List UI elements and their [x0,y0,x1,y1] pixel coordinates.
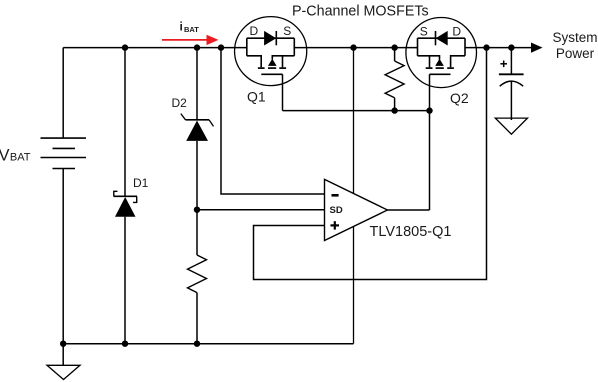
wire D2 branch top [196,48,198,120]
svg-text:SD: SD [330,205,343,216]
wire noninverting feedback [254,48,487,280]
wire Q2 gate drop to output [429,74,431,210]
system power arrow head [531,43,543,53]
capacitor C1 [499,48,524,120]
label D pin Q2 [452,25,461,39]
wire ground stub [62,344,64,366]
svg-text:V: V [0,147,10,165]
svg-text:D: D [452,25,461,39]
wire top rail middle segment [295,47,418,49]
ground right [495,118,527,134]
wire R1 bottom lead [394,98,396,111]
wire bottom ground rail [63,343,353,345]
label S pin Q2 [420,25,428,39]
wire gate line [283,110,430,112]
svg-text:D2: D2 [172,96,188,110]
label S pin Q1 [283,24,291,38]
wire Q1 gate drop [282,74,284,110]
resistor R2 [188,255,207,293]
wire top rail right segment [465,47,532,49]
resistor R1 pull-up top lead [394,48,396,61]
label Q1 [247,89,266,105]
svg-text:S: S [283,24,291,38]
svg-text:Power: Power [556,46,595,61]
transistor Q1 [235,17,307,86]
label D1 [133,176,149,190]
wire D1 branch top [124,48,126,197]
op-amp U1 TLV1805-Q1 [325,179,388,240]
svg-text:BAT: BAT [10,152,31,164]
label Q2 [450,90,469,106]
svg-text:S: S [420,25,428,39]
wire R2 to ground rail [196,293,198,344]
wire comparator V- supply [353,226,355,343]
transistor Q2 [406,18,477,88]
diode D2 (zener) [181,114,214,141]
label System Power [552,30,597,61]
svg-text:Q2: Q2 [450,90,469,106]
wire comparator V+ supply [353,48,355,194]
wire top rail left segment [63,47,246,49]
label D2 [172,96,188,110]
wire D1 branch bottom [124,217,126,344]
wire SD node to resistor R2 [196,210,198,255]
label VBAT [0,147,31,165]
svg-text:System: System [552,30,597,45]
svg-text:Q1: Q1 [247,89,266,105]
wire comparator output [388,209,430,211]
wire SD input [197,209,325,211]
red current arrow iBAT [162,35,219,45]
label TLV1805-Q1 [370,224,452,240]
svg-text:D1: D1 [133,176,149,190]
battery VBAT [41,48,87,344]
wire D2 to SD node [196,141,198,210]
ground left [47,365,80,379]
svg-text:P-Channel MOSFETs: P-Channel MOSFETs [292,4,429,20]
label iBAT [180,20,200,35]
title label [292,4,429,20]
svg-text:i: i [180,20,183,34]
diode D1 (zener) [114,191,138,216]
svg-text:TLV1805-Q1: TLV1805-Q1 [370,224,452,240]
label D pin Q1 [250,24,259,38]
resistor R1 [385,61,404,98]
svg-text:BAT: BAT [184,25,199,34]
svg-text:D: D [250,24,259,38]
wire inverting input branch [221,48,325,194]
